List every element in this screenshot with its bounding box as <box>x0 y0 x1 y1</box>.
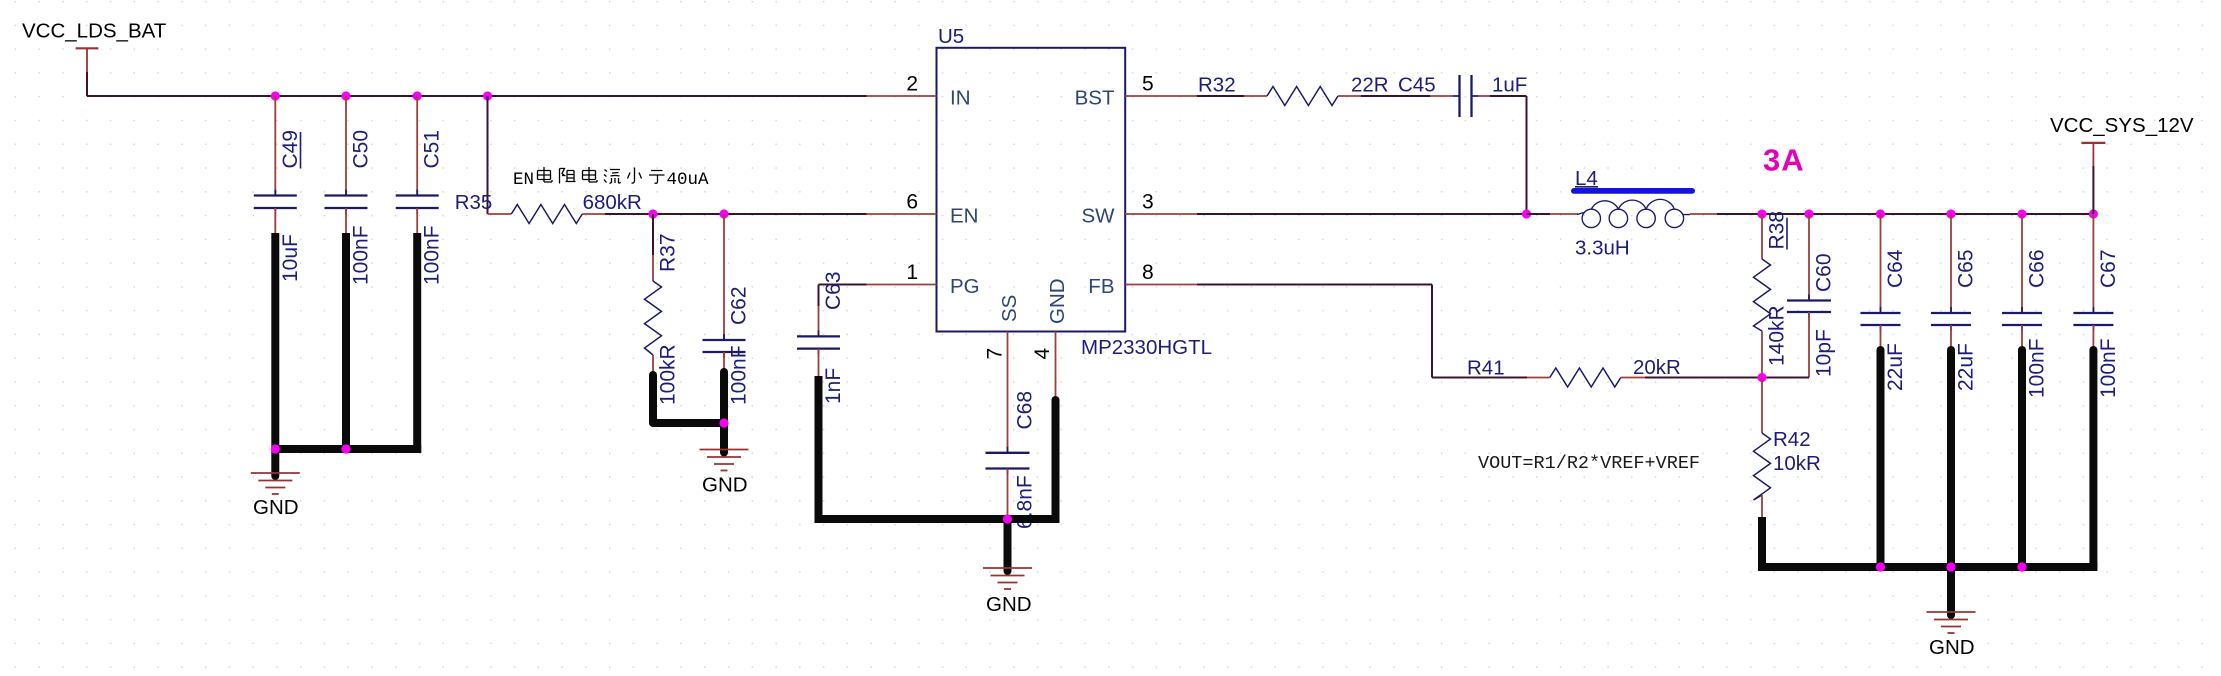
svg-text:100nF: 100nF <box>2097 338 2120 398</box>
wire thick stub to ground 4 <box>1947 567 1955 615</box>
junction on gnd bus at C49 <box>271 444 280 453</box>
capacitor C50 <box>345 96 347 196</box>
pin 1 stub <box>867 284 937 286</box>
wire thick R37 down <box>649 375 657 423</box>
junction out C60 <box>1804 209 1813 218</box>
svg-text:C65: C65 <box>1955 249 1978 288</box>
svg-text:22uF: 22uF <box>1955 343 1978 391</box>
svg-text:GND: GND <box>1046 278 1069 324</box>
pin 6 stub <box>867 213 937 215</box>
svg-text:VOUT=R1/R2*VREF+VREF: VOUT=R1/R2*VREF+VREF <box>1478 453 1700 474</box>
svg-text:GND: GND <box>1929 636 1975 659</box>
svg-text:22uF: 22uF <box>1884 343 1907 391</box>
wire thick R42 down <box>1758 517 1766 571</box>
svg-text:4: 4 <box>1031 348 1054 360</box>
wire top bus VCC_LDS_BAT to U5 pin 2 <box>87 95 867 97</box>
ground symbol middle <box>983 567 1032 569</box>
svg-text:C67: C67 <box>2097 249 2120 288</box>
svg-text:PG: PG <box>950 275 980 298</box>
svg-text:R32: R32 <box>1198 74 1236 97</box>
capacitor C63 1nF <box>818 285 820 307</box>
svg-text:3A: 3A <box>1763 143 1805 178</box>
svg-text:6: 6 <box>906 191 918 214</box>
svg-text:R35: R35 <box>455 191 493 214</box>
svg-text:100nF: 100nF <box>728 345 751 405</box>
wire thick C64 down <box>1877 350 1885 567</box>
junction right gnd C66 <box>2017 562 2026 571</box>
junction gnd R37/C62 <box>719 418 728 427</box>
underline L4 <box>1575 186 1598 188</box>
svg-text:3.3uH: 3.3uH <box>1575 236 1630 259</box>
svg-text:R37: R37 <box>657 233 680 272</box>
junction mid gnd bus <box>1003 514 1012 523</box>
pin 8 stub <box>1125 284 1197 286</box>
svg-text:140kR: 140kR <box>1766 305 1789 366</box>
junction EN at C62 <box>719 209 728 218</box>
svg-text:SW: SW <box>1081 205 1115 228</box>
svg-text:100kR: 100kR <box>657 344 680 405</box>
svg-text:1nF: 1nF <box>822 368 845 404</box>
capacitor C45 1uF <box>1430 95 1453 97</box>
wire thick stub to ground <box>271 449 279 476</box>
wire C60 bottom to R38 bottom <box>1762 377 1809 379</box>
capacitor C49 <box>274 96 276 196</box>
wire C45 down to SW net <box>1490 95 1527 97</box>
ground symbol left <box>251 472 300 474</box>
svg-text:FB: FB <box>1088 275 1114 298</box>
wire thick stub to ground 3 <box>1004 519 1012 571</box>
wire thick R37 to C62 <box>653 419 724 427</box>
wire R41 to FB divider node <box>1645 377 1762 379</box>
svg-text:C60: C60 <box>1813 253 1836 292</box>
svg-text:20kR: 20kR <box>1633 356 1681 379</box>
capacitor C68 6.8nF <box>1007 402 1009 453</box>
svg-text:GND: GND <box>702 474 748 497</box>
svg-text:VCC_SYS_12V: VCC_SYS_12V <box>2050 114 2194 137</box>
capacitor C67 100nF <box>2092 214 2094 313</box>
svg-text:GND: GND <box>986 593 1032 616</box>
wire VCC_LDS_BAT vertical drop <box>86 72 88 96</box>
junction out C64 <box>1876 209 1885 218</box>
inductor L4 3.3uH <box>1527 213 1551 215</box>
junction out C66 <box>2017 209 2026 218</box>
svg-text:C62: C62 <box>728 286 751 325</box>
capacitor C64 22uF <box>1880 214 1882 313</box>
svg-text:IN: IN <box>950 87 971 110</box>
junction EN at R37 <box>648 209 657 218</box>
svg-text:C68: C68 <box>1014 391 1037 430</box>
svg-text:R38: R38 <box>1766 211 1789 250</box>
wire thick C49 to gnd bus <box>271 233 279 449</box>
svg-text:MP2330HGTL: MP2330HGTL <box>1081 336 1212 359</box>
svg-text:C45: C45 <box>1398 74 1436 97</box>
wire thick GND pin down <box>1052 400 1060 519</box>
resistor R37 100kR <box>652 214 654 255</box>
wire thick C66 down <box>2018 350 2026 567</box>
wire thick stub to ground 2 <box>720 423 728 453</box>
capacitor C51 <box>416 96 418 196</box>
junction out R38 <box>1757 209 1766 218</box>
capacitor C66 100nF <box>2021 214 2023 313</box>
svg-text:VCC_LDS_BAT: VCC_LDS_BAT <box>22 20 167 43</box>
svg-text:C49: C49 <box>279 130 302 169</box>
svg-text:C51: C51 <box>421 130 444 169</box>
svg-text:100nF: 100nF <box>350 225 373 285</box>
svg-text:5: 5 <box>1142 73 1154 96</box>
svg-text:C50: C50 <box>350 130 373 169</box>
power symbol VCC_SYS_12V <box>2081 142 2105 144</box>
svg-text:10uF: 10uF <box>279 234 302 282</box>
junction at C51 <box>413 91 422 100</box>
pin 5 stub <box>1125 95 1197 97</box>
power symbol VCC_LDS_BAT <box>76 47 99 49</box>
junction out C65 <box>1946 209 1955 218</box>
svg-text:1uF: 1uF <box>1492 74 1527 97</box>
svg-text:BST: BST <box>1075 87 1115 110</box>
wire R35 branch vertical <box>487 96 489 214</box>
junction at R35 branch <box>483 91 492 100</box>
svg-text:C63: C63 <box>822 271 845 310</box>
capacitor C65 22uF <box>1950 214 1952 313</box>
resistor R42 10kR <box>1761 378 1763 434</box>
svg-text:EN: EN <box>950 205 978 228</box>
wire thick C67 down <box>2089 350 2097 567</box>
wire C63 to U5 pin 1 <box>819 284 867 286</box>
capacitor C62 100nF <box>723 214 725 340</box>
pin 2 stub <box>867 95 937 97</box>
wire R32 to C45 <box>1361 95 1430 97</box>
svg-text:U5: U5 <box>938 25 964 48</box>
wire EN net R35 to U5 pin 6 <box>605 213 867 215</box>
polarity bar L4 (blue) <box>1571 188 1695 194</box>
op-amp U5 MP2330HGTL body <box>937 48 1126 332</box>
svg-text:1: 1 <box>906 261 918 284</box>
resistor R35 680kR <box>488 213 512 215</box>
underline C49 <box>300 132 302 169</box>
pin 4 stub <box>1055 332 1057 401</box>
svg-text:10pF: 10pF <box>1813 329 1836 377</box>
wire thick C62 down <box>720 372 728 423</box>
wire thick C63 down to gnd bus <box>815 376 823 523</box>
ground symbol right <box>1927 611 1976 613</box>
junction SW/BST cap <box>1522 209 1531 218</box>
wire thick C50 to gnd bus <box>342 233 350 449</box>
pin 3 stub <box>1125 213 1197 215</box>
svg-text:10kR: 10kR <box>1773 452 1821 475</box>
wire thick mid gnd bus <box>815 515 1060 523</box>
svg-text:R42: R42 <box>1773 428 1811 451</box>
svg-text:R41: R41 <box>1467 357 1505 380</box>
junction FB divider <box>1757 373 1766 382</box>
svg-text:8: 8 <box>1142 261 1154 284</box>
junction at C50 <box>341 91 350 100</box>
wire BST to R32 <box>1197 95 1244 97</box>
junction right gnd C65 <box>1946 562 1955 571</box>
resistor R38 140kR <box>1761 214 1763 259</box>
svg-text:100nF: 100nF <box>2026 338 2049 398</box>
wire FB net to R41 <box>1197 284 1432 286</box>
svg-text:40uA: 40uA <box>667 170 710 190</box>
resistor R32 22R <box>1244 95 1267 97</box>
wire VCC_SYS_12V output bus <box>1762 213 2093 215</box>
junction right gnd C64 <box>1876 562 1885 571</box>
junction on gnd bus at C50 <box>341 444 350 453</box>
svg-text:22R: 22R <box>1351 74 1389 97</box>
wire thick gnd bus horizontal <box>275 445 421 453</box>
wire thick C51 to gnd bus <box>413 233 421 453</box>
svg-text:EN: EN <box>513 170 534 190</box>
svg-text:SS: SS <box>998 295 1021 322</box>
wire L4 to output node <box>1690 213 1717 215</box>
wire SW net <box>1197 213 1527 215</box>
svg-text:2: 2 <box>906 73 918 96</box>
capacitor C60 10pF <box>1808 214 1810 301</box>
svg-text:3: 3 <box>1142 191 1154 214</box>
wire thick C65 down <box>1947 350 1955 567</box>
underline R38 <box>1786 218 1788 250</box>
svg-text:GND: GND <box>253 496 299 519</box>
junction out C67/power <box>2089 209 2098 218</box>
svg-text:C64: C64 <box>1884 249 1907 288</box>
junction at C49 <box>271 91 280 100</box>
svg-text:7: 7 <box>984 348 1007 360</box>
svg-text:680kR: 680kR <box>583 191 642 214</box>
pin 7 stub <box>1007 332 1009 402</box>
resistor R41 20kR <box>1527 377 1550 379</box>
wire thick right gnd bus <box>1758 563 2097 571</box>
svg-text:100nF: 100nF <box>421 225 444 285</box>
svg-text:C66: C66 <box>2026 249 2049 288</box>
ground symbol mid-left <box>700 449 749 451</box>
